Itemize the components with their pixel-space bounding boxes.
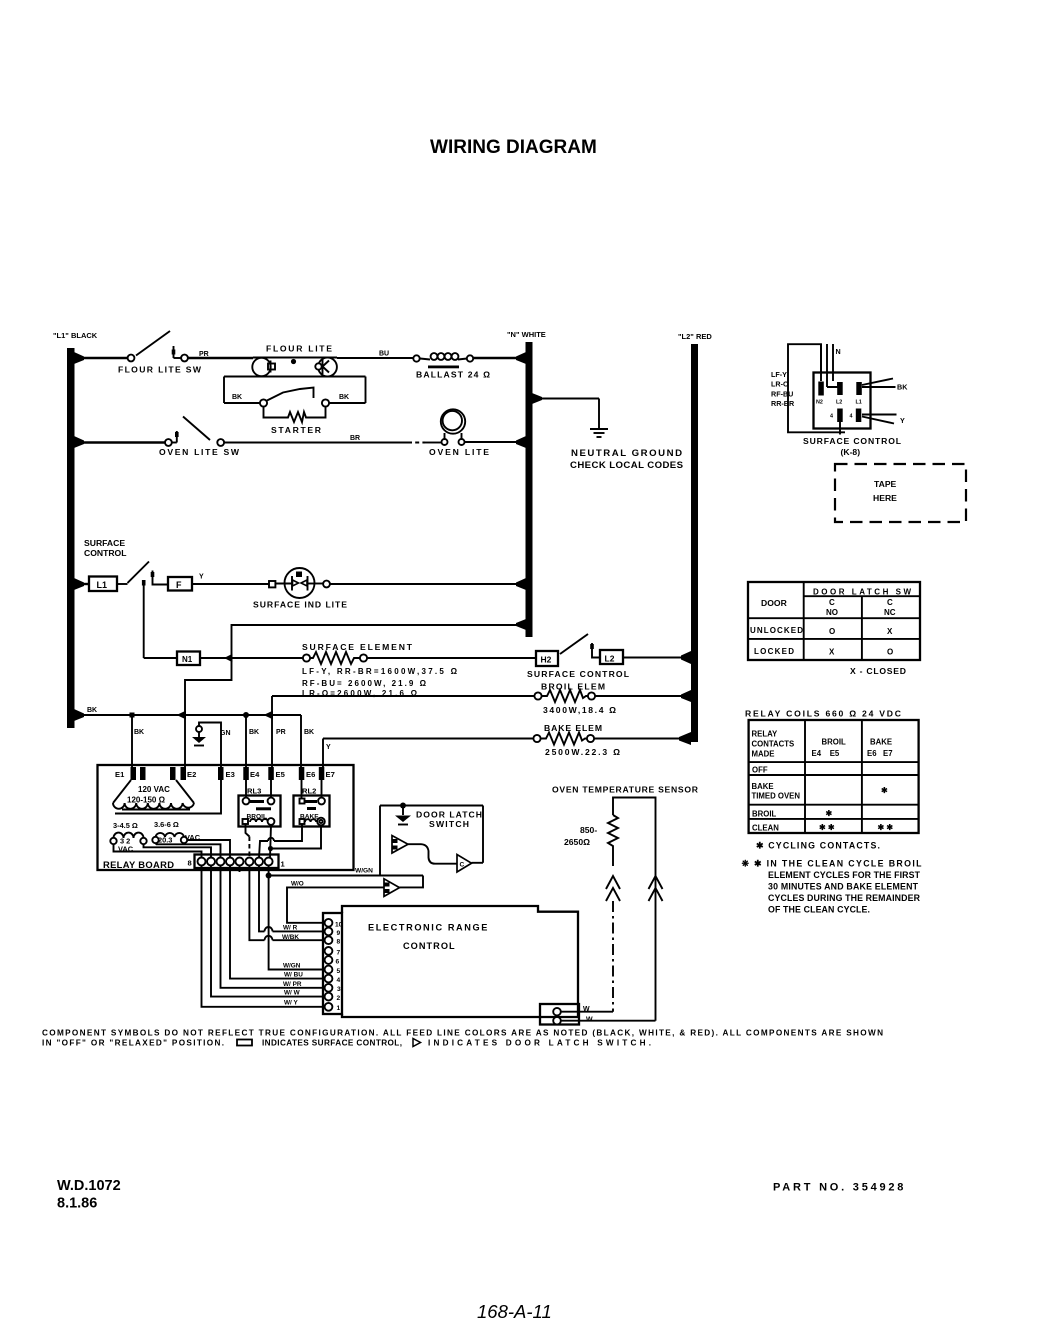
- svg-text:L2: L2: [836, 400, 842, 406]
- svg-text:BK: BK: [304, 729, 314, 736]
- svg-text:O: O: [887, 648, 893, 657]
- svg-text:3400W,18.4 Ω: 3400W,18.4 Ω: [543, 705, 616, 715]
- svg-text:E7: E7: [326, 770, 335, 779]
- svg-text:DOOR LATCH: DOOR LATCH: [416, 810, 482, 820]
- sensor connector box: [540, 1004, 579, 1025]
- wire drop to E5 (from broil): [271, 696, 273, 768]
- svg-text:IN "OFF" OR "RELAXED" POSITION: IN "OFF" OR "RELAXED" POSITION.: [42, 1039, 224, 1048]
- svg-text:4: 4: [850, 414, 853, 420]
- arrows on sensor leads: [606, 876, 620, 901]
- wire strip5 stub: [239, 866, 241, 873]
- svg-text:L2: L2: [605, 654, 615, 664]
- terminal E5: [268, 767, 274, 780]
- switch OVEN LITE SW: [165, 439, 172, 446]
- wire E4 to RL3: [245, 780, 247, 798]
- junction N bus / surface element riser wire: [516, 619, 526, 630]
- door latch switch contact NO: [392, 836, 408, 854]
- svg-text:9: 9: [337, 930, 341, 937]
- ground door latch: [400, 803, 406, 809]
- svg-text:UNLOCKED: UNLOCKED: [750, 626, 803, 635]
- junction L2 bus / surface control L2 wire: [681, 651, 691, 664]
- lamp OVEN LITE: [442, 439, 448, 445]
- svg-text:CONTROL: CONTROL: [84, 548, 127, 558]
- svg-text:6: 6: [336, 958, 340, 965]
- wire W/GN to door latch: [269, 875, 423, 877]
- svg-text:L1: L1: [856, 400, 862, 406]
- svg-text:INDICATES SURFACE CONTROL,: INDICATES SURFACE CONTROL,: [262, 1039, 402, 1048]
- resistor BAKE ELEM 2500W: [323, 738, 533, 740]
- svg-text:E5: E5: [276, 770, 286, 779]
- svg-text:E1: E1: [115, 770, 125, 779]
- svg-text:8: 8: [188, 859, 192, 868]
- svg-text:DOOR: DOOR: [761, 598, 788, 608]
- svg-text:Y: Y: [326, 744, 331, 751]
- svg-text:CONTACTS: CONTACTS: [752, 740, 795, 749]
- svg-text:HERE: HERE: [873, 493, 897, 503]
- node N bus (white neutral line): [526, 342, 533, 637]
- wire L1 to flour lite sw: [75, 357, 128, 359]
- ground neutral ground symbol: [590, 428, 608, 430]
- wire step down to E2: [185, 658, 232, 715]
- wire strip6 to ERC pin8 W/BK: [249, 866, 324, 941]
- wire E7 to RL2: [321, 780, 323, 798]
- svg-text:TAPE: TAPE: [874, 479, 897, 489]
- junction N bus / flour lite wire: [516, 352, 526, 364]
- svg-text:BAKE ELEM: BAKE ELEM: [544, 723, 602, 733]
- wire N1 feed: [144, 657, 177, 659]
- terminal E1: [131, 767, 137, 780]
- svg-text:PART NO. 354928: PART NO. 354928: [773, 1182, 904, 1194]
- wire E3 to transformer secondary: [115, 768, 221, 814]
- svg-text:8: 8: [337, 939, 341, 946]
- svg-text:W/ PR: W/ PR: [283, 981, 302, 988]
- wire lower mid pin tail: [839, 422, 841, 435]
- wire RL2 lower-right to junction: [273, 826, 321, 849]
- svg-text:✱ ✱: ✱ ✱: [878, 823, 894, 832]
- switch surface control L1: [117, 583, 128, 585]
- wire L1 to L1 box: [75, 583, 89, 585]
- wire L1 to oven lite sw: [75, 441, 165, 443]
- svg-text:BROIL: BROIL: [822, 738, 846, 747]
- junction N bus / ind lite wire: [516, 578, 526, 590]
- ballast BALLAST 24 ohm: [413, 355, 419, 361]
- svg-text:SURFACE IND LITE: SURFACE IND LITE: [253, 600, 347, 610]
- svg-text:Y: Y: [199, 574, 204, 581]
- coil 20.3 VAC: [152, 837, 158, 843]
- node L2 bus (red feed line): [691, 344, 698, 742]
- svg-text:❋ ✱ IN THE CLEAN CYCLE BROIL: ❋ ✱ IN THE CLEAN CYCLE BROIL: [742, 859, 923, 869]
- relay board box: [98, 765, 354, 870]
- svg-text:W/ BU: W/ BU: [284, 972, 303, 979]
- surface control K-8 connector outline: [788, 344, 845, 432]
- box L2: [600, 650, 623, 664]
- junction L1 bus / oven lite wire: [74, 436, 84, 448]
- wire drop to E7 (from bake): [322, 739, 324, 769]
- svg-text:STARTER: STARTER: [271, 425, 322, 435]
- svg-text:BK: BK: [134, 729, 144, 736]
- svg-text:3.6-6 Ω: 3.6-6 Ω: [154, 820, 179, 829]
- svg-text:RF-BU= 2600W, 21.9 Ω: RF-BU= 2600W, 21.9 Ω: [302, 679, 427, 688]
- svg-text:W/ R: W/ R: [283, 925, 298, 932]
- wire E6 to RL2: [301, 780, 303, 799]
- node L1 bus (black feed line): [67, 348, 75, 728]
- svg-text:5: 5: [337, 968, 341, 975]
- svg-text:1: 1: [337, 1005, 341, 1012]
- node junction strip8: [266, 873, 272, 879]
- svg-text:GN: GN: [220, 730, 231, 737]
- svg-text:C: C: [829, 598, 835, 607]
- svg-text:✱ ✱: ✱ ✱: [819, 823, 835, 832]
- svg-text:120 VAC: 120 VAC: [138, 785, 170, 794]
- svg-text:10: 10: [335, 922, 343, 929]
- wire strip3 to ERC pin3 W/PR: [221, 866, 325, 988]
- svg-text:BAKE: BAKE: [870, 738, 892, 747]
- svg-text:N2: N2: [816, 400, 823, 406]
- switch FLOUR LITE SW: [128, 355, 135, 362]
- svg-text:CLEAN: CLEAN: [752, 824, 779, 833]
- wire coil1 right to strip 2: [144, 844, 212, 858]
- svg-text:PR: PR: [199, 351, 209, 358]
- lamp SURFACE IND LITE: [269, 581, 275, 587]
- svg-text:850-: 850-: [580, 825, 597, 835]
- svg-text:W/BK: W/BK: [282, 934, 299, 941]
- svg-text:3: 3: [337, 986, 341, 993]
- svg-text:X: X: [887, 627, 893, 636]
- box N1: [177, 652, 200, 666]
- svg-text:Y: Y: [900, 416, 905, 425]
- wire E5 to RL3: [270, 780, 272, 798]
- svg-text:2650Ω: 2650Ω: [564, 837, 590, 847]
- svg-text:W/ Y: W/ Y: [284, 1000, 298, 1007]
- svg-text:NC: NC: [884, 608, 896, 617]
- wire Y leads: [862, 414, 897, 416]
- svg-text:120-150 Ω: 120-150 Ω: [127, 796, 166, 805]
- connector strip: [195, 855, 279, 869]
- svg-text:BAKE: BAKE: [752, 782, 774, 791]
- ERC pins 10..1: [325, 919, 333, 927]
- svg-text:LOCKED: LOCKED: [754, 647, 794, 656]
- wire RL3 lower-left to strip 6 (dashed): [246, 824, 250, 837]
- svg-text:X - CLOSED: X - CLOSED: [850, 666, 906, 676]
- wire strip2 to ERC pin2 W/W: [211, 866, 324, 997]
- wire sensor leads: [561, 1011, 613, 1013]
- svg-text:BK: BK: [339, 394, 349, 401]
- svg-text:COMPONENT SYMBOLS DO NOT REFLE: COMPONENT SYMBOLS DO NOT REFLECT TRUE CO…: [42, 1029, 883, 1038]
- terminal E4: [243, 767, 249, 780]
- svg-text:168-A-11: 168-A-11: [477, 1301, 552, 1322]
- pin L2: [837, 382, 843, 395]
- svg-text:30 MINUTES AND BAKE ELEMENT: 30 MINUTES AND BAKE ELEMENT: [768, 882, 919, 892]
- svg-text:✱: ✱: [881, 786, 888, 795]
- svg-text:BALLAST 24 Ω: BALLAST 24 Ω: [416, 370, 490, 380]
- svg-text:BU: BU: [379, 351, 389, 358]
- svg-text:C: C: [887, 598, 893, 607]
- svg-text:BK: BK: [249, 729, 259, 736]
- svg-text:7: 7: [337, 949, 341, 956]
- svg-text:FLOUR LITE SW: FLOUR LITE SW: [118, 365, 202, 375]
- box F: [168, 577, 192, 591]
- resistor 850-2650 ohm: [608, 815, 618, 866]
- wire coil2 right to strip 4: [187, 840, 230, 858]
- junction N bus / neutral ground wire: [532, 393, 542, 404]
- svg-text:F: F: [176, 580, 182, 590]
- pin N2: [818, 382, 824, 396]
- wire drop to E2 (from step): [184, 715, 186, 768]
- svg-text:BK: BK: [232, 394, 242, 401]
- svg-text:C: C: [460, 862, 465, 869]
- svg-text:"L2" RED: "L2" RED: [678, 332, 712, 341]
- ground chassis at E3: [196, 726, 202, 732]
- table DOOR LATCH SW: [748, 582, 920, 660]
- wire BR: [224, 442, 408, 444]
- box ELECTRONIC RANGE CONTROL: [342, 906, 578, 1017]
- wire drop to E1: [131, 715, 133, 768]
- wire riser to N bus: [232, 625, 527, 658]
- svg-text:WIRING DIAGRAM: WIRING DIAGRAM: [430, 137, 598, 158]
- svg-text:X: X: [829, 648, 835, 657]
- svg-text:2: 2: [337, 995, 341, 1002]
- svg-text:MADE: MADE: [752, 750, 775, 759]
- svg-text:OVEN TEMPERATURE SENSOR: OVEN TEMPERATURE SENSOR: [552, 785, 699, 795]
- wire drop to E4: [245, 715, 247, 768]
- svg-text:N: N: [836, 347, 841, 356]
- wire N1 to surface element: [200, 657, 303, 659]
- pin P4b lower right: [856, 409, 862, 423]
- wire strip8 to ERC pin5 W/GN: [269, 866, 324, 970]
- svg-text:RELAY BOARD: RELAY BOARD: [103, 859, 174, 870]
- junction L1 bus / BK wire: [74, 709, 84, 721]
- svg-text:"N" WHITE: "N" WHITE: [507, 330, 546, 339]
- wire BK net from L1: [75, 714, 301, 716]
- door latch loop: [379, 806, 381, 876]
- terminal E6: [299, 767, 305, 780]
- tape here box: [835, 464, 966, 522]
- svg-text:ELEMENT CYCLES FOR THE FIRST: ELEMENT CYCLES FOR THE FIRST: [768, 870, 921, 880]
- svg-text:L1: L1: [97, 580, 108, 590]
- wire PR: [188, 357, 253, 359]
- svg-text:BROIL: BROIL: [752, 810, 776, 819]
- pin P4 lower mid: [837, 409, 843, 423]
- wire neutral ground tap: [533, 398, 599, 400]
- svg-text:"L1" BLACK: "L1" BLACK: [53, 331, 98, 340]
- node junction E4: [243, 712, 249, 718]
- switch surface control H2/L2: [560, 634, 588, 654]
- wire W/O from ERC pin10: [287, 887, 384, 922]
- svg-text:OFF: OFF: [752, 766, 768, 775]
- door latch switch contact C: [457, 855, 472, 873]
- node junction E1: [130, 713, 135, 718]
- terminal E2: [170, 767, 176, 780]
- svg-text:PR: PR: [276, 729, 286, 736]
- svg-text:8.1.86: 8.1.86: [57, 1196, 97, 1212]
- wire strip7 to ERC pin9 W/R: [259, 866, 324, 932]
- svg-text:E6: E6: [306, 770, 315, 779]
- svg-text:E2: E2: [187, 770, 196, 779]
- box L1: [89, 577, 117, 592]
- resistor BROIL ELEM 3400W: [272, 695, 534, 697]
- svg-text:BR: BR: [350, 435, 360, 442]
- svg-text:RELAY: RELAY: [752, 730, 779, 739]
- svg-text:4: 4: [337, 977, 341, 984]
- svg-text:3-4.5 Ω: 3-4.5 Ω: [113, 821, 138, 830]
- svg-text:FLOUR LITE: FLOUR LITE: [266, 344, 332, 354]
- box surface control K-8: [814, 373, 871, 429]
- junction L1 bus / surface control wire: [74, 578, 84, 590]
- svg-text:(K-8): (K-8): [841, 447, 861, 457]
- svg-text:W/GN: W/GN: [283, 962, 301, 969]
- svg-text:4: 4: [830, 414, 833, 420]
- wire BU: [337, 357, 413, 359]
- svg-text:RL2: RL2: [302, 787, 316, 796]
- wire RL3 lower-right to strip 8: [270, 825, 271, 858]
- starter switch contacts: [260, 399, 267, 406]
- svg-text:LR-O: LR-O: [771, 380, 789, 389]
- resistor STARTER: [264, 407, 326, 422]
- svg-text:O: O: [829, 627, 835, 636]
- svg-text:BK: BK: [897, 383, 908, 392]
- svg-text:N1: N1: [182, 655, 193, 664]
- svg-text:RL3: RL3: [247, 787, 261, 796]
- svg-text:E6 E7: E6 E7: [867, 749, 893, 758]
- svg-text:RR-BR: RR-BR: [771, 399, 795, 408]
- svg-text:BK: BK: [87, 707, 97, 714]
- transformer primary 120VAC: [113, 780, 131, 803]
- wire drop to E6: [300, 715, 302, 768]
- svg-text:W.D.1072: W.D.1072: [57, 1178, 121, 1194]
- terminal E3: [218, 767, 224, 780]
- svg-text:W/O: W/O: [291, 881, 304, 888]
- svg-text:✱: ✱: [826, 809, 833, 818]
- wire to surface ind lite: [192, 583, 269, 585]
- wire strip4 to ERC pin4 W/BU: [230, 866, 324, 979]
- junction N bus / oven lite wire: [516, 436, 526, 448]
- pin L1: [856, 382, 862, 395]
- svg-text:SWITCH: SWITCH: [429, 819, 469, 829]
- junction L1 bus / flour lite wire: [74, 352, 84, 364]
- starter loop: [224, 376, 253, 378]
- svg-text:INDICATES DOOR LATCH SWITCH: INDICATES DOOR LATCH SWITCH.: [428, 1039, 651, 1048]
- svg-text:20.3: 20.3: [158, 836, 172, 845]
- wire N leads into K-8: [820, 344, 822, 381]
- svg-text:SURFACE CONTROL: SURFACE CONTROL: [803, 436, 901, 446]
- wire coil1 left to strip 1: [114, 844, 202, 858]
- svg-text:E4 E5: E4 E5: [812, 749, 840, 758]
- box H2: [536, 651, 558, 666]
- svg-text:CONTROL: CONTROL: [403, 941, 456, 951]
- svg-text:SURFACE ELEMENT: SURFACE ELEMENT: [302, 642, 413, 652]
- wire strip1 to ERC pin1 W/Y: [202, 866, 325, 1007]
- terminal E7: [319, 767, 325, 780]
- wire sensor left dash-dot: [612, 901, 614, 1012]
- svg-text:RF-BU: RF-BU: [771, 390, 793, 399]
- svg-text:OF THE CLEAN CYCLE.: OF THE CLEAN CYCLE.: [768, 905, 870, 915]
- svg-text:LF-Y: LF-Y: [771, 370, 787, 379]
- svg-text:CHECK LOCAL CODES: CHECK LOCAL CODES: [570, 460, 684, 471]
- junction L2 bus / broil elem wire: [681, 690, 691, 702]
- svg-text:H2: H2: [541, 655, 552, 665]
- wire coil2 left to strip 3: [156, 843, 221, 858]
- svg-text:W/ W: W/ W: [284, 990, 301, 997]
- svg-text:CYCLES DURING THE REMAINDER: CYCLES DURING THE REMAINDER: [768, 893, 921, 903]
- svg-text:NO: NO: [826, 608, 838, 617]
- svg-text:TIMED OVEN: TIMED OVEN: [752, 792, 801, 801]
- svg-text:E4: E4: [250, 770, 260, 779]
- svg-text:SURFACE CONTROL: SURFACE CONTROL: [527, 669, 629, 679]
- svg-text:2500W.22.3 Ω: 2500W.22.3 Ω: [545, 747, 620, 757]
- svg-text:SURFACE: SURFACE: [84, 538, 125, 548]
- svg-text:E3: E3: [226, 770, 235, 779]
- door latch switch contact W/O: [384, 879, 400, 897]
- wire BK leads: [862, 379, 893, 386]
- svg-text:ELECTRONIC RANGE: ELECTRONIC RANGE: [368, 923, 489, 933]
- junction L2 bus / bake elem wire: [679, 732, 691, 745]
- wire RL2 lower-left to strip 7: [259, 824, 302, 858]
- svg-text:W/GN: W/GN: [355, 868, 373, 875]
